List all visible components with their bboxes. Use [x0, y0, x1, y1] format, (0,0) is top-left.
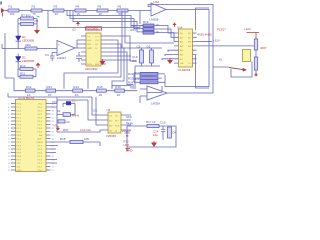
svg-text:P1.0: P1.0: [17, 104, 22, 106]
svg-text:P3.4: P3.4: [17, 149, 22, 151]
wire into eeprom: [92, 97, 104, 115]
svg-text:LM324: LM324: [57, 56, 66, 60]
diode D2 LED: [16, 54, 35, 70]
svg-text:CO: CO: [188, 63, 192, 65]
wire divider left bus: [18, 19, 21, 34]
+5V power: [54, 124, 61, 131]
svg-text:C2: C2: [66, 120, 70, 124]
svg-text:GND: GND: [17, 170, 22, 172]
svg-text:P3.6: P3.6: [17, 156, 22, 158]
svg-text:X1: X1: [57, 109, 61, 113]
svg-text:U2: U2: [72, 28, 76, 32]
wire outer loop: [148, 5, 213, 94]
svg-text:R3: R3: [54, 5, 58, 9]
wire: [88, 100, 104, 120]
svg-text:P2.5: P2.5: [38, 153, 43, 155]
wire: [70, 11, 143, 29]
svg-text:R1: R1: [9, 5, 13, 9]
svg-text:CS: CS: [87, 36, 91, 38]
resistor network stack: [131, 20, 179, 42]
resistor R4: [75, 5, 86, 17]
wire: [88, 44, 121, 89]
svg-text:AD0: AD0: [25, 43, 31, 47]
svg-text:R18: R18: [60, 137, 66, 141]
svg-text:P0.6: P0.6: [38, 128, 43, 130]
svg-text:P2.4: P2.4: [38, 156, 43, 158]
svg-text:P1.3: P1.3: [17, 114, 22, 116]
svg-text:R11: R11: [20, 72, 25, 76]
wire relay bottom loop: [231, 62, 256, 78]
svg-text:SCK: SCK: [126, 115, 132, 119]
svg-text:LED0805: LED0805: [22, 39, 34, 43]
capacitor C14: [153, 121, 166, 141]
+12V power bar: [244, 27, 259, 38]
svg-text:30: 30: [55, 12, 59, 16]
wire resistor leads: [18, 69, 36, 77]
svg-text:P3.3: P3.3: [17, 146, 22, 148]
svg-text:P1.2: P1.2: [17, 111, 22, 113]
svg-text:RST: RST: [17, 132, 22, 134]
wire lower loop link: [147, 86, 162, 93]
svg-text:U14: U14: [177, 26, 183, 30]
svg-text:P2.2: P2.2: [38, 163, 43, 165]
svg-text:+5: +5: [54, 124, 58, 128]
svg-text:VC: VC: [115, 116, 118, 118]
svg-text:1K: 1K: [48, 93, 52, 97]
wire divider right bus: [34, 19, 38, 29]
svg-text:SO: SO: [109, 121, 112, 123]
svg-text:WP: WP: [109, 126, 113, 128]
op-amp U2B: [57, 41, 75, 60]
svg-text:75: 75: [33, 12, 37, 16]
svg-text:P2.7: P2.7: [38, 146, 43, 148]
svg-text:▮: ▮: [0, 0, 2, 5]
MCU lower right wires: [51, 142, 101, 153]
svg-text:CH0: CH0: [87, 40, 92, 42]
resistor R13: [46, 85, 56, 97]
resistor R7: [21, 14, 34, 20]
svg-text:P3.7: P3.7: [17, 160, 22, 162]
svg-text:VCC: VCC: [38, 104, 43, 106]
resistor row chain: [14, 86, 137, 91]
wire stub labels: [106, 56, 131, 60]
svg-text:P1.6: P1.6: [17, 125, 22, 127]
wire loop box bottom: [196, 55, 210, 88]
svg-text:+12V: +12V: [213, 39, 220, 43]
svg-text:R21: R21: [131, 28, 137, 32]
crystal Y1: [57, 109, 80, 118]
svg-text:P2.1: P2.1: [38, 167, 43, 169]
wire: [73, 11, 143, 32]
wire inner loop: [165, 10, 209, 87]
wire tap bundle: [67, 11, 143, 26]
resistor R2: [31, 5, 42, 17]
svg-text:R2: R2: [32, 5, 36, 9]
wire left rail: [5, 33, 14, 91]
svg-text:ADC0832: ADC0832: [85, 67, 98, 71]
svg-text:K1: K1: [219, 58, 223, 62]
svg-text:DO: DO: [132, 59, 137, 63]
wire U4 right pin out: [197, 41, 213, 43]
svg-text:U5: U5: [107, 108, 111, 112]
resistor R12: [25, 85, 35, 97]
+5V red right of stack: [173, 23, 177, 28]
svg-text:CLK: CLK: [95, 40, 100, 42]
svg-text:LM358: LM358: [151, 102, 160, 106]
svg-text:R16: R16: [115, 85, 121, 89]
svg-text:GN: GN: [180, 63, 184, 65]
capacitor C5 C6 pair: [122, 44, 162, 89]
svg-text:REF: REF: [95, 64, 100, 66]
resistor R11: [20, 72, 33, 79]
svg-text:4MHz: 4MHz: [72, 114, 80, 118]
svg-text:10u: 10u: [153, 133, 158, 137]
wire opamp out: [75, 40, 81, 48]
resistor R17: [146, 120, 159, 128]
svg-text:DO: DO: [95, 44, 99, 46]
svg-text:P3.1: P3.1: [17, 139, 22, 141]
svg-text:CS: CS: [109, 116, 113, 118]
wire bus above MCU: [8, 93, 92, 163]
svg-text:P3.2: P3.2: [17, 142, 22, 144]
svg-text:-: -: [58, 51, 59, 55]
svg-text:R17 1K: R17 1K: [146, 120, 156, 124]
svg-text:CH1: CH1: [87, 44, 92, 46]
svg-text:P0.4: P0.4: [38, 121, 43, 123]
resistor R15: [97, 85, 107, 97]
svg-text:AD2: AD2: [134, 77, 140, 81]
svg-text:ULN2003: ULN2003: [178, 68, 191, 72]
svg-text:1K: 1K: [156, 30, 160, 34]
wire tap node after R2: [48, 11, 143, 28]
+5V power above IC: [76, 22, 80, 27]
svg-text:R7 300: R7 300: [21, 14, 31, 18]
junction dot: [255, 73, 258, 76]
svg-text:C10 10u: C10 10u: [80, 128, 91, 132]
svg-text:R19: R19: [143, 20, 149, 24]
IC U5 X25045: [93, 108, 132, 138]
svg-text:P1.7: P1.7: [17, 128, 22, 130]
IC U4: [174, 26, 197, 73]
resistor R14: [73, 85, 83, 97]
wire horizontal to amp: [2, 44, 57, 49]
ground arrow bottom: [151, 141, 157, 147]
svg-text:P3.0: P3.0: [17, 135, 22, 137]
ground arrow: [34, 29, 40, 35]
svg-text:HO: HO: [115, 121, 119, 123]
wire: [106, 52, 133, 89]
capacitor C1: [63, 99, 76, 115]
svg-text:RST: RST: [63, 128, 69, 132]
capacitor C4: [76, 52, 82, 62]
svg-text:C5: C5: [137, 44, 141, 48]
opamp U3A: [150, 0, 167, 22]
svg-text:GND: GND: [126, 149, 132, 153]
wire loop box top: [196, 8, 210, 30]
svg-text:R13: R13: [47, 85, 53, 89]
diode D3: [254, 39, 267, 50]
svg-text:GND: GND: [87, 48, 92, 50]
svg-text:P0.5: P0.5: [38, 125, 43, 127]
svg-text:D4: D4: [173, 131, 177, 135]
svg-text:VCC: VCC: [95, 36, 100, 38]
svg-text:C1: C1: [72, 99, 76, 103]
svg-text:+12V: +12V: [244, 27, 251, 31]
wire: [125, 11, 174, 44]
wires into U4 lower pins: [162, 50, 174, 60]
svg-text:R4: R4: [76, 5, 80, 9]
svg-text:R5: R5: [98, 5, 102, 9]
resistor R25: [254, 57, 257, 70]
wire top: [127, 126, 176, 147]
wire: [96, 97, 104, 125]
svg-text:4N25 4N25: 4N25 4N25: [197, 33, 212, 37]
MCU U1: [8, 96, 55, 172]
svg-text:R6: R6: [118, 5, 122, 9]
svg-text:P0.2: P0.2: [38, 114, 43, 116]
wire: [106, 36, 137, 61]
svg-text:R10: R10: [20, 64, 26, 68]
svg-text:P0.1: P0.1: [38, 111, 43, 113]
svg-text:P1.1: P1.1: [17, 107, 22, 109]
svg-text:R15: R15: [97, 85, 103, 89]
svg-text:+5V: +5V: [128, 122, 133, 126]
svg-text:PC817: PC817: [217, 28, 226, 32]
wire top rail: [6, 10, 137, 12]
svg-text:150: 150: [10, 12, 15, 16]
wire opamp inputs: [140, 89, 147, 103]
IC U2 ADC0832: [72, 27, 106, 72]
svg-text:PSEN: PSEN: [37, 142, 43, 144]
svg-text:P2.6: P2.6: [38, 149, 43, 151]
resistor stack mid: [128, 72, 165, 84]
wire opamp minus input: [52, 53, 57, 57]
resistor R18: [60, 137, 89, 143]
svg-text:ALE: ALE: [38, 138, 43, 141]
svg-text:C3: C3: [45, 53, 49, 57]
wire to opamp input: [137, 11, 151, 25]
svg-text:R12: R12: [26, 85, 32, 89]
svg-text:1K: 1K: [99, 93, 103, 97]
svg-text:P1.5: P1.5: [17, 121, 22, 123]
diode D4: [168, 127, 177, 138]
svg-text:U3A: U3A: [154, 0, 160, 4]
small tick: [37, 16, 40, 17]
svg-text:P3.5: P3.5: [17, 153, 22, 155]
resistor R1: [8, 5, 19, 17]
svg-text:1K: 1K: [75, 93, 79, 97]
svg-text:LM358: LM358: [150, 18, 159, 22]
svg-text:P0.7: P0.7: [38, 132, 43, 134]
svg-text:4007: 4007: [260, 46, 267, 50]
svg-text:C6: C6: [147, 44, 151, 48]
wire cluster left rail: [51, 97, 89, 132]
svg-text:1K: 1K: [117, 93, 121, 97]
svg-text:P1.4: P1.4: [17, 118, 22, 120]
svg-text:R24: R24: [128, 81, 134, 85]
opamp U3B: [147, 86, 167, 106]
relay K1: [219, 50, 251, 62]
svg-text:LED: LED: [124, 143, 130, 147]
wire reset line: [57, 130, 104, 132]
switch arm: [229, 68, 247, 72]
wire: [197, 38, 257, 67]
wire: [64, 40, 118, 89]
resistor R8: [21, 19, 39, 25]
svg-text:CS: CS: [93, 109, 97, 113]
svg-text:R8: R8: [35, 19, 39, 23]
resistor R16: [115, 85, 125, 97]
svg-text:10K: 10K: [84, 137, 89, 141]
resistor R10: [20, 64, 33, 71]
svg-text:P2.0: P2.0: [38, 170, 43, 172]
svg-text:DGN: DGN: [87, 64, 92, 66]
svg-text:+: +: [58, 42, 60, 46]
svg-text:LED0805: LED0805: [22, 59, 34, 63]
battery 9V: [125, 130, 130, 138]
ground arrow left of U4: [167, 58, 173, 64]
wire: [106, 48, 124, 89]
svg-text:1K: 1K: [156, 23, 160, 27]
power arrow: [36, 63, 41, 69]
svg-text:SCK: SCK: [115, 126, 120, 128]
svg-text:C15: C15: [160, 121, 166, 125]
resistor R9: [25, 47, 37, 50]
svg-text:X25045: X25045: [106, 134, 116, 138]
resistor R3: [53, 5, 64, 17]
svg-text:AD1: AD1: [134, 71, 140, 75]
svg-text:P0.3: P0.3: [38, 118, 43, 120]
svg-text:P2.3: P2.3: [38, 160, 43, 162]
svg-text:P0.0: P0.0: [38, 107, 43, 109]
capacitor C3: [45, 53, 55, 61]
svg-text:R14: R14: [73, 85, 79, 89]
resistor R6: [117, 5, 128, 17]
diode D1 LED: [16, 33, 35, 49]
svg-text:V: V: [126, 134, 128, 138]
wire long verticals: [121, 11, 123, 49]
capacitor C2: [58, 120, 70, 124]
ground arrow below IC: [100, 59, 106, 65]
resistor R5: [97, 5, 108, 17]
power flag VCC left: [1, 8, 7, 17]
